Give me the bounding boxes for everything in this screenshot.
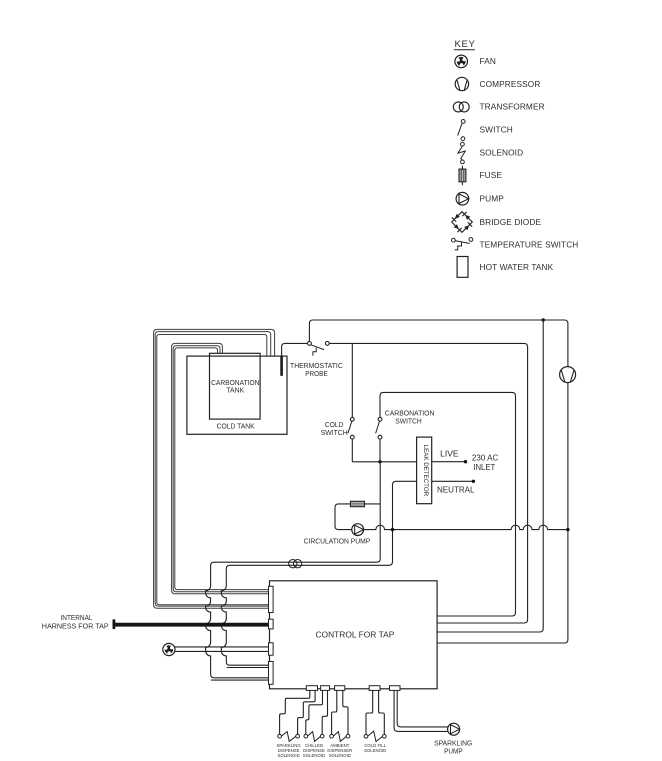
cold fill solenoid left wire (366, 690, 373, 734)
bottom connector B5 (390, 686, 401, 691)
svg-text:NEUTRAL: NEUTRAL (437, 486, 475, 495)
thermostatic probe (thick bar in cold tank) (280, 357, 283, 375)
svg-text:TRANSFORMER: TRANSFORMER (480, 102, 545, 112)
bridge diode legend icon (452, 212, 473, 233)
neutral wire left leg down to transformer pair (221, 481, 416, 665)
sparkling solenoid label (276, 743, 301, 758)
wire bundle inner (3 wires: left side, top run, drop into carbonation tank) (172, 343, 269, 593)
svg-text:CIRCULATION PUMP: CIRCULATION PUMP (304, 537, 371, 545)
svg-text:KEY: KEY (455, 39, 476, 50)
internal harness for tap (thick lead) (113, 619, 270, 629)
wire from temp switch to right drop at x=527.6 down into control box (329, 343, 527, 623)
svg-text:SOLENOID: SOLENOID (329, 753, 351, 758)
carbonation switch label (385, 409, 435, 425)
temperature switch legend icon (452, 238, 473, 250)
sparkling dispense solenoid (278, 732, 300, 742)
svg-text:TEMPERATURE SWITCH: TEMPERATURE SWITCH (480, 240, 579, 250)
svg-text:BRIDGE DIODE: BRIDGE DIODE (480, 217, 542, 227)
sparkling pump wires from connector B5 (394, 690, 448, 731)
connector 1 (269, 586, 274, 612)
fan legend icon (455, 55, 468, 68)
chilled solenoid label (303, 743, 325, 758)
ambient solenoid right wire (343, 690, 348, 734)
hot water tank legend icon (457, 257, 468, 278)
pump legend icon (456, 192, 469, 205)
sparkling pump (448, 723, 460, 735)
thermostatic temperature switch (308, 342, 330, 356)
sparkling pump label (434, 740, 472, 756)
svg-text:COMPRESSOR: COMPRESSOR (480, 79, 541, 89)
svg-text:SWITCH: SWITCH (395, 417, 421, 425)
svg-text:FAN: FAN (480, 56, 496, 66)
connector 3 (269, 643, 274, 655)
svg-text:COLD: COLD (325, 421, 344, 429)
svg-text:CARBONATION: CARBONATION (211, 379, 259, 387)
internal harness label (42, 614, 109, 631)
circulation pump (352, 524, 364, 536)
cold fill solenoid label (364, 743, 387, 753)
fuse (351, 501, 365, 506)
sparkling solenoid left wire (280, 690, 310, 734)
svg-text:THERMOSTATIC: THERMOSTATIC (290, 362, 343, 370)
key title (454, 39, 475, 50)
svg-text:SOLENOID: SOLENOID (480, 147, 524, 157)
230 ac inlet label (472, 454, 499, 473)
chilled solenoid left wire (306, 690, 323, 734)
svg-text:INTERNAL: INTERNAL (61, 614, 93, 622)
fan (163, 643, 175, 655)
svg-text:SOLENOID: SOLENOID (364, 748, 386, 753)
svg-text:230 AC: 230 AC (472, 454, 499, 463)
ambient dispenser solenoid (330, 732, 350, 742)
cold fill solenoid right wire (379, 690, 385, 734)
svg-text:PUMP: PUMP (444, 747, 463, 755)
fan wires to connector 3 (175, 647, 270, 652)
fuse legend icon (459, 166, 466, 185)
carbonation tank label (211, 379, 259, 395)
svg-text:SOLENOID: SOLENOID (303, 753, 325, 758)
neutral inlet dot (472, 480, 475, 483)
wire bundle outer (3 wires: left side, top run, drop into cold tank) (154, 329, 275, 608)
cold fill solenoid (364, 731, 386, 741)
svg-text:HARNESS FOR TAP: HARNESS FOR TAP (42, 623, 109, 631)
switches junction wire to leak detector (352, 461, 416, 463)
carbonation tank (210, 353, 261, 419)
carbonation switch (376, 417, 382, 461)
transformer (289, 560, 302, 568)
svg-text:SWITCH: SWITCH (321, 429, 348, 437)
svg-text:PROBE: PROBE (305, 370, 328, 378)
junction dot carbonation switch (378, 460, 381, 463)
leak detector (417, 437, 432, 504)
svg-text:PUMP: PUMP (480, 194, 505, 204)
bottom connector B2 (321, 686, 330, 691)
cold switch label (321, 421, 348, 437)
junction dot neutral x pump wire (391, 528, 394, 531)
svg-text:SPARKLING: SPARKLING (434, 740, 472, 748)
cold switch (348, 343, 354, 461)
fuse and circulation pump loop (335, 504, 568, 530)
svg-text:COLD TANK: COLD TANK (217, 423, 255, 431)
svg-text:TANK: TANK (226, 387, 244, 395)
cold tank (187, 356, 287, 434)
neutral wire right of leak detector (432, 480, 474, 482)
sparkling solenoid right wire (298, 690, 316, 734)
vertical A pair lower line into connector 4 (211, 679, 269, 681)
live wire to inlet (432, 461, 466, 463)
bottom connector B3 (335, 686, 345, 691)
connector 2 (269, 619, 274, 629)
switch legend icon (458, 120, 465, 141)
svg-text:HOT WATER TANK: HOT WATER TANK (480, 262, 554, 272)
control box (270, 581, 438, 689)
chilled dispense solenoid (304, 732, 324, 742)
bottom connector B1 (306, 686, 317, 691)
svg-text:CONTROL FOR TAP: CONTROL FOR TAP (315, 629, 394, 639)
neutral pair lower line into connector 4 (227, 667, 269, 669)
compressor (560, 367, 576, 383)
svg-text:INLET: INLET (473, 463, 495, 472)
svg-text:SOLENOID: SOLENOID (277, 753, 299, 758)
compressor lower wire into control box (437, 383, 568, 643)
wire drop x=543.2 from top wire into control box (437, 320, 543, 632)
thermostatic probe label (290, 362, 343, 378)
solenoid legend icon (458, 142, 465, 164)
bottom connector B4 (369, 686, 380, 691)
live feed vertical A: carbonation junction down through fuse wire to transformer pair (206, 462, 381, 678)
chilled solenoid right wire (322, 690, 327, 734)
ambient solenoid label (327, 743, 352, 758)
wire from carbonation switch top loop to right drop x=515.5 into control box (380, 392, 516, 616)
junction dot pump wire x compressor line (566, 528, 569, 531)
svg-text:LIVE: LIVE (440, 450, 459, 459)
compressor legend icon (455, 77, 468, 90)
transformer legend icon (453, 102, 469, 112)
svg-text:FUSE: FUSE (480, 170, 503, 180)
svg-text:CARBONATION: CARBONATION (385, 409, 435, 417)
svg-text:SWITCH: SWITCH (480, 125, 513, 135)
LEGEND (452, 39, 579, 277)
thermostatic probe wire (282, 343, 308, 356)
junction dot top wire (542, 318, 545, 321)
ambient solenoid left wire (332, 690, 337, 734)
svg-text:LEAK DETECTOR: LEAK DETECTOR (422, 445, 429, 497)
connector 4 (269, 662, 274, 685)
live inlet dot (464, 460, 467, 463)
top supply wire with corner down to compressor branch (309, 320, 568, 367)
